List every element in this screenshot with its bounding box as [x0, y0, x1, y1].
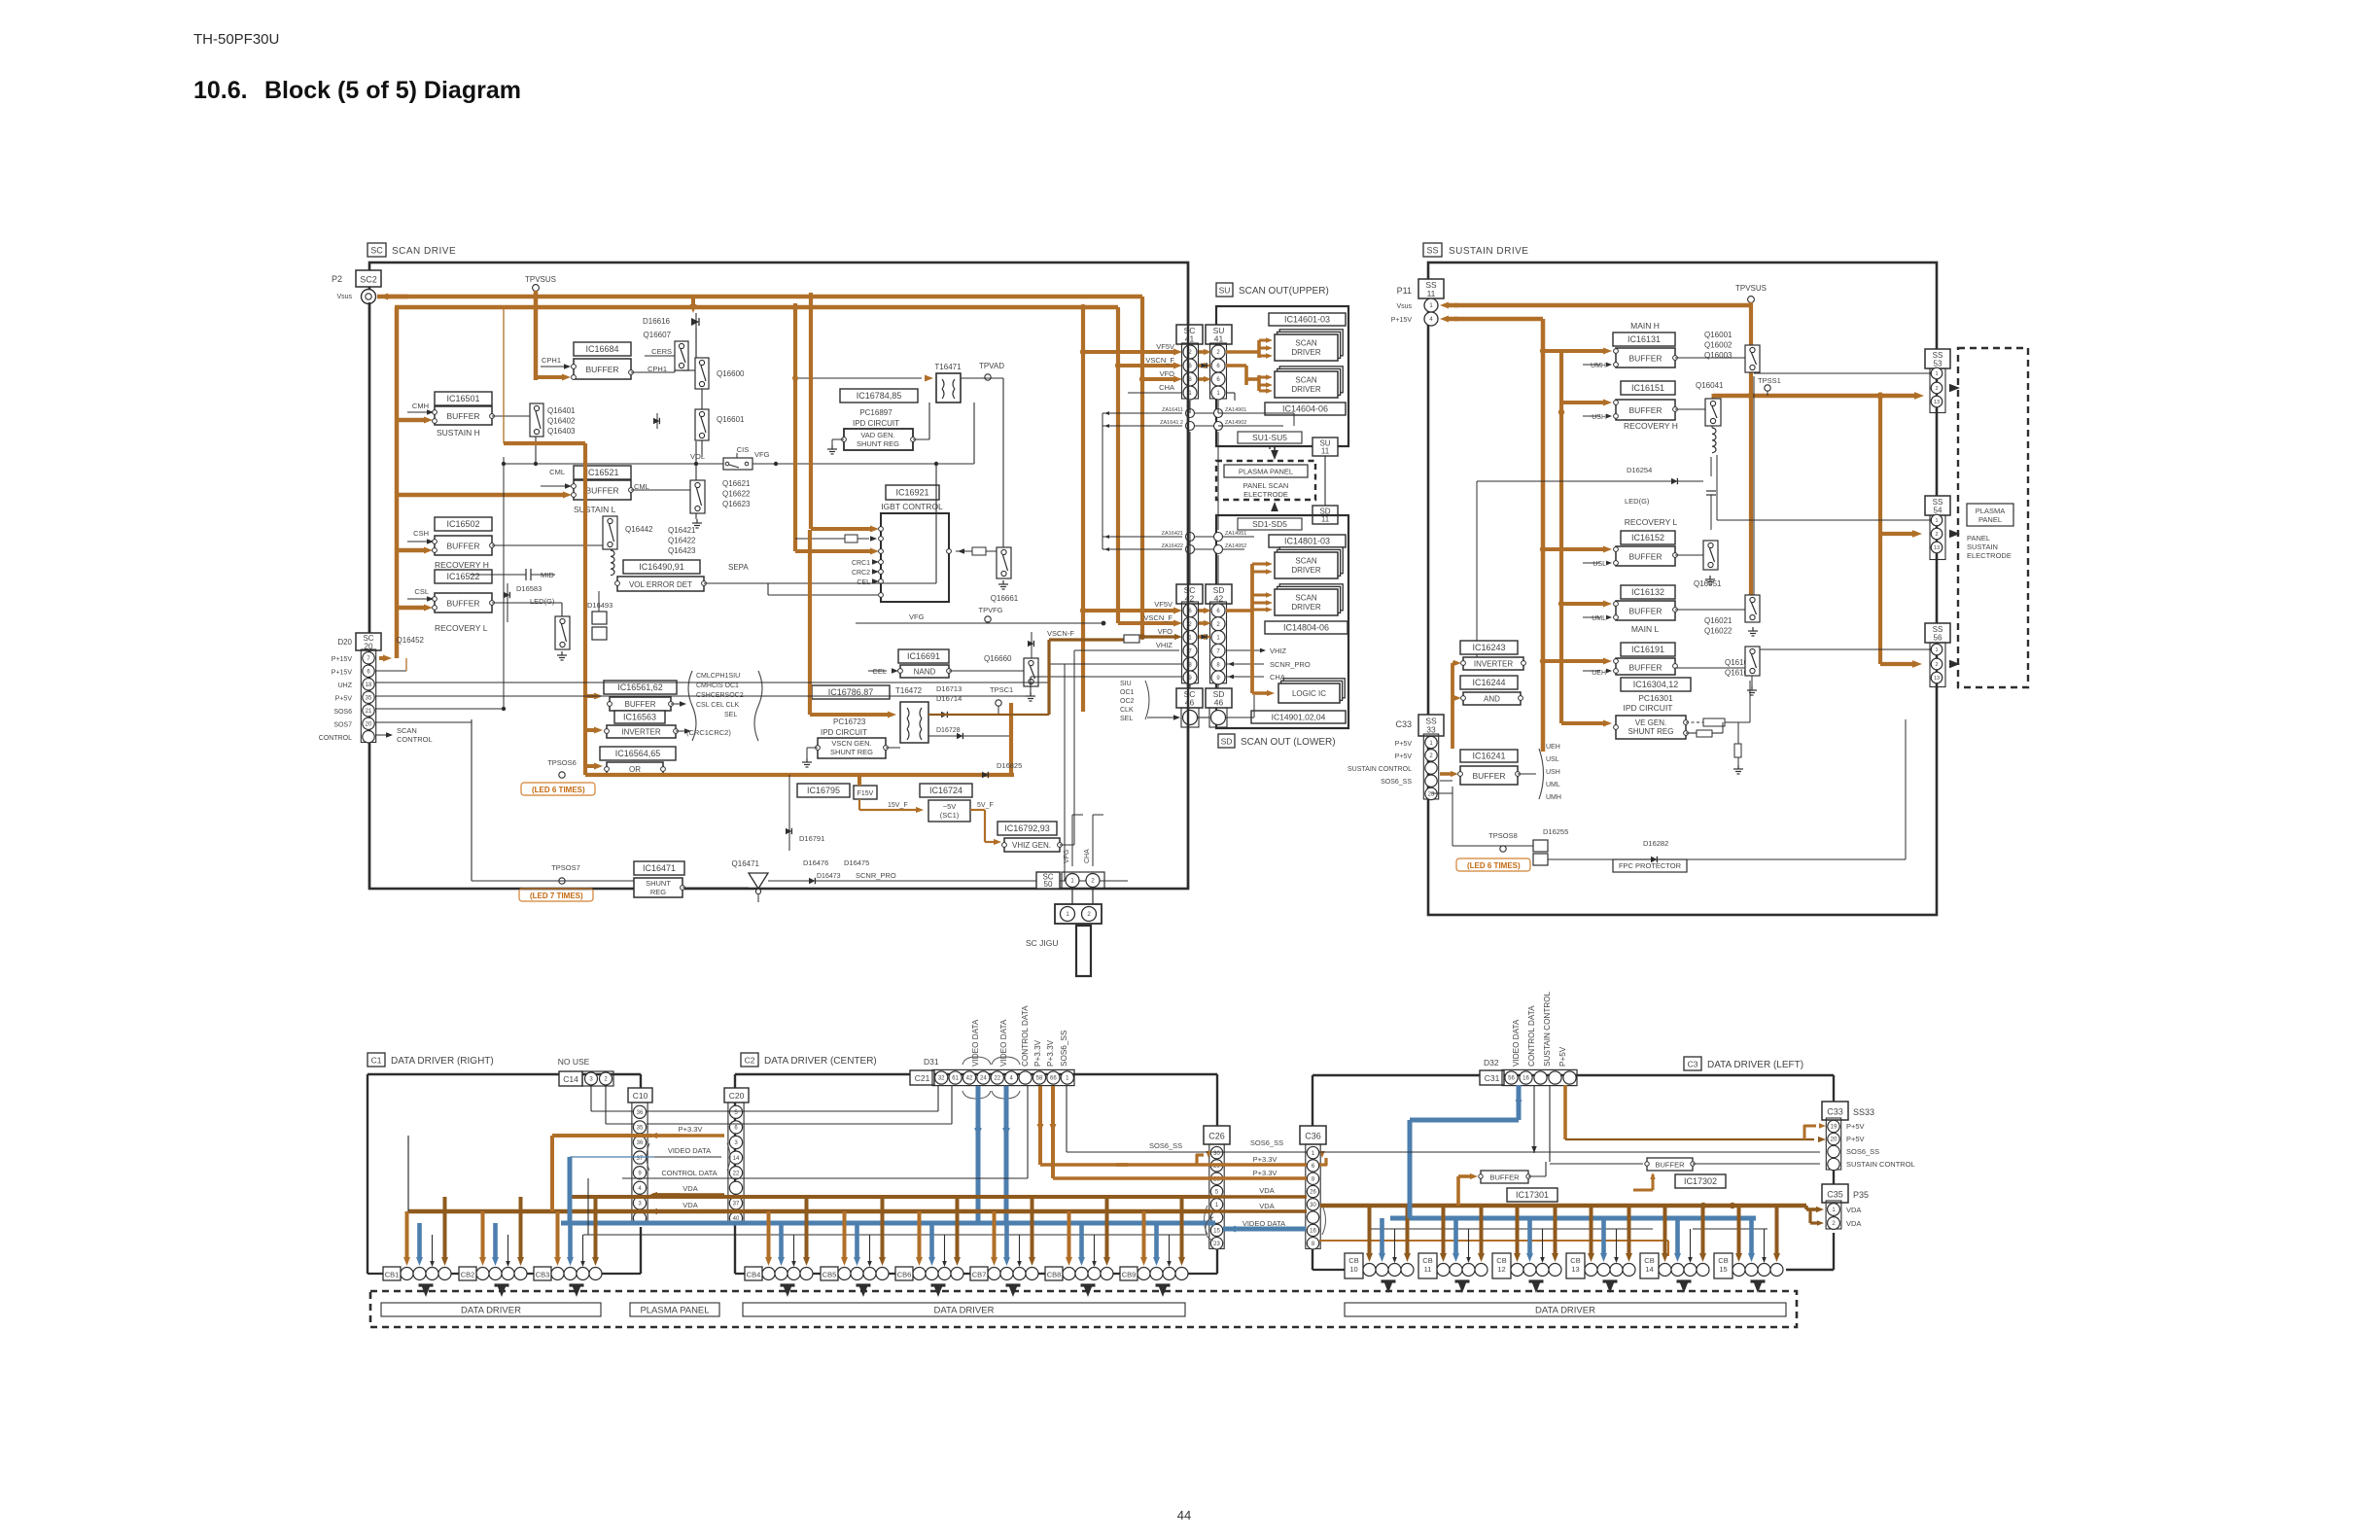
svg-text:C26: C26	[1208, 1132, 1225, 1141]
svg-text:1: 1	[1935, 647, 1938, 653]
svg-text:SHUNT: SHUNT	[646, 879, 671, 888]
svg-text:VFG: VFG	[909, 612, 925, 621]
svg-text:VAD GEN.: VAD GEN.	[860, 431, 894, 439]
svg-text:36: 36	[637, 1140, 644, 1146]
svg-text:BUFFER: BUFFER	[1629, 405, 1662, 415]
svg-text:SCNR_PRO: SCNR_PRO	[856, 871, 896, 880]
svg-text:23: 23	[1428, 792, 1435, 798]
svg-text:13: 13	[1934, 545, 1940, 551]
svg-text:IPD CIRCUIT: IPD CIRCUIT	[853, 419, 899, 428]
svg-text:USH: USH	[1592, 414, 1606, 421]
svg-text:SUSTAIN: SUSTAIN	[1967, 542, 1998, 551]
svg-text:2: 2	[1935, 662, 1938, 668]
svg-text:DRIVER: DRIVER	[1291, 603, 1320, 612]
svg-text:D16476: D16476	[803, 858, 828, 867]
svg-text:PC16723: PC16723	[833, 717, 866, 726]
svg-text:VDA: VDA	[1259, 1186, 1274, 1195]
svg-text:RECOVERY L: RECOVERY L	[435, 623, 488, 633]
svg-text:PANEL: PANEL	[1978, 515, 2002, 524]
svg-text:SCAN DRIVE: SCAN DRIVE	[392, 246, 456, 257]
svg-text:IC16691: IC16691	[907, 651, 940, 661]
svg-text:50: 50	[1044, 880, 1053, 889]
svg-text:CB1: CB1	[385, 1271, 400, 1279]
svg-text:CIS: CIS	[737, 445, 750, 454]
svg-text:SOS6_SS: SOS6_SS	[1846, 1147, 1879, 1156]
svg-text:CB2: CB2	[461, 1271, 475, 1279]
svg-text:LOGIC IC: LOGIC IC	[1292, 689, 1326, 698]
svg-text:1: 1	[1935, 371, 1938, 377]
svg-text:15: 15	[1213, 1229, 1220, 1235]
svg-text:Q16422: Q16422	[668, 537, 696, 545]
svg-text:IC16724: IC16724	[929, 786, 962, 795]
svg-text:T16472: T16472	[895, 686, 923, 695]
svg-text:SCAN OUT(UPPER): SCAN OUT(UPPER)	[1239, 286, 1329, 297]
svg-text:DATA DRIVER: DATA DRIVER	[934, 1305, 995, 1315]
svg-text:MAIN H: MAIN H	[1630, 321, 1660, 331]
svg-text:SHUNT REG: SHUNT REG	[830, 748, 873, 756]
svg-text:IC16304,12: IC16304,12	[1633, 680, 1679, 689]
svg-text:IC16241: IC16241	[1472, 752, 1505, 761]
svg-text:CHA: CHA	[1159, 383, 1174, 392]
svg-text:C21: C21	[915, 1073, 930, 1083]
svg-text:D16255: D16255	[1543, 827, 1568, 836]
svg-text:VIDEO DATA: VIDEO DATA	[1512, 1019, 1521, 1067]
svg-text:UML: UML	[1546, 782, 1560, 788]
svg-text:SCAN: SCAN	[1295, 376, 1316, 385]
svg-text:BUFFER: BUFFER	[447, 599, 480, 609]
svg-text:D16713: D16713	[936, 684, 962, 693]
svg-text:IGBT CONTROL: IGBT CONTROL	[881, 502, 943, 511]
svg-text:35: 35	[366, 695, 372, 701]
svg-text:LED(G): LED(G)	[530, 597, 555, 606]
svg-text:1: 1	[1935, 518, 1938, 524]
svg-text:SUSTAIN CONTROL: SUSTAIN CONTROL	[1347, 766, 1412, 773]
svg-text:Q16421: Q16421	[668, 526, 696, 535]
svg-text:CONTROL: CONTROL	[319, 735, 352, 742]
svg-text:ZA14902: ZA14902	[1225, 420, 1246, 426]
svg-text:ZA16411: ZA16411	[1162, 407, 1183, 413]
svg-text:VFG: VFG	[754, 450, 770, 459]
svg-text:10.6.: 10.6.	[193, 77, 248, 104]
svg-text:D16473: D16473	[817, 873, 841, 880]
svg-text:SOS6: SOS6	[333, 709, 352, 716]
svg-text:DATA DRIVER: DATA DRIVER	[461, 1305, 521, 1315]
svg-text:CERS: CERS	[651, 347, 672, 356]
svg-text:SD1-SD5: SD1-SD5	[1252, 519, 1287, 529]
svg-text:15V_F: 15V_F	[888, 802, 908, 809]
svg-text:VF5V: VF5V	[1156, 342, 1174, 351]
svg-text:VOL: VOL	[690, 452, 705, 461]
svg-text:5V_F: 5V_F	[977, 802, 994, 809]
svg-text:Q16452: Q16452	[397, 636, 425, 645]
svg-text:14: 14	[733, 1156, 740, 1162]
svg-text:TPVSUS: TPVSUS	[525, 275, 556, 284]
svg-text:ZA14952: ZA14952	[1225, 543, 1246, 549]
svg-text:P+5V: P+5V	[1846, 1122, 1865, 1131]
svg-text:C20: C20	[729, 1091, 745, 1101]
svg-text:IC17302: IC17302	[1684, 1176, 1717, 1186]
svg-text:Q16022: Q16022	[1704, 627, 1732, 636]
svg-text:SCAN: SCAN	[1295, 339, 1316, 348]
svg-text:BUFFER: BUFFER	[586, 365, 619, 374]
svg-text:CML: CML	[549, 468, 565, 476]
svg-text:P+5V: P+5V	[1846, 1135, 1865, 1143]
svg-text:Block (5 of 5) Diagram: Block (5 of 5) Diagram	[264, 77, 521, 104]
svg-text:P+5V: P+5V	[335, 696, 353, 703]
svg-text:D16475: D16475	[844, 858, 869, 867]
svg-text:SS: SS	[1426, 246, 1438, 256]
svg-text:VHIZ: VHIZ	[1270, 647, 1287, 655]
svg-text:ELECTRODE: ELECTRODE	[1243, 490, 1288, 499]
svg-text:UEH: UEH	[1546, 744, 1560, 751]
svg-text:Q16607: Q16607	[644, 331, 672, 339]
svg-text:TPVFG: TPVFG	[978, 606, 1002, 614]
svg-text:Q16660: Q16660	[984, 654, 1012, 663]
svg-text:TPVSUS: TPVSUS	[1735, 284, 1767, 293]
svg-text:VHIZ: VHIZ	[1156, 641, 1173, 649]
svg-text:P+3.3V: P+3.3V	[1253, 1155, 1277, 1164]
svg-text:(SC1): (SC1)	[940, 811, 960, 820]
svg-text:C31: C31	[1485, 1073, 1500, 1083]
svg-text:P+5V: P+5V	[1395, 753, 1413, 760]
svg-text:CMLCPH1SIU: CMLCPH1SIU	[696, 673, 740, 680]
svg-text:53: 53	[1934, 360, 1942, 368]
svg-text:D16583: D16583	[516, 584, 542, 593]
svg-text:DATA DRIVER: DATA DRIVER	[1535, 1305, 1595, 1315]
svg-text:SOS6_SS: SOS6_SS	[1060, 1030, 1068, 1067]
svg-text:CHA: CHA	[1270, 673, 1285, 682]
svg-text:VFO: VFO	[1158, 627, 1173, 636]
svg-text:IC16243: IC16243	[1472, 643, 1505, 652]
svg-text:ELECTRODE: ELECTRODE	[1967, 551, 2012, 560]
svg-text:CB: CB	[1496, 1256, 1506, 1265]
svg-text:PC16897: PC16897	[859, 408, 892, 417]
svg-text:12: 12	[1497, 1265, 1505, 1274]
svg-text:Q16051: Q16051	[1694, 579, 1722, 588]
svg-text:CB: CB	[1718, 1256, 1728, 1265]
svg-text:CB7: CB7	[972, 1271, 987, 1279]
svg-text:TPVAD: TPVAD	[979, 362, 1004, 370]
svg-text:IC14801-03: IC14801-03	[1284, 537, 1330, 546]
svg-text:IC16131: IC16131	[1627, 334, 1661, 344]
svg-text:UMH: UMH	[1591, 363, 1606, 369]
svg-text:C1: C1	[371, 1056, 382, 1066]
svg-text:Q16041: Q16041	[1696, 381, 1724, 390]
svg-text:11: 11	[1424, 1265, 1432, 1274]
svg-text:56: 56	[1934, 634, 1942, 643]
svg-text:P+3.3V: P+3.3V	[1033, 1039, 1042, 1067]
svg-text:SEPA: SEPA	[728, 563, 749, 572]
svg-text:NAND: NAND	[914, 668, 936, 677]
svg-text:BUFFER: BUFFER	[447, 542, 480, 551]
svg-text:P+5V: P+5V	[1395, 741, 1413, 748]
svg-text:D16616: D16616	[643, 317, 671, 326]
svg-text:P+15V: P+15V	[332, 670, 353, 677]
svg-text:33: 33	[1426, 725, 1436, 735]
svg-text:LED(G): LED(G)	[1625, 497, 1650, 506]
svg-text:(LED 6 TIMES): (LED 6 TIMES)	[532, 786, 585, 794]
svg-text:SIU: SIU	[1120, 681, 1132, 687]
svg-text:FPC PROTECTOR: FPC PROTECTOR	[1619, 861, 1682, 870]
svg-text:Q16621: Q16621	[722, 479, 751, 488]
svg-text:RECOVERY L: RECOVERY L	[1625, 517, 1678, 527]
svg-text:IC16490,91: IC16490,91	[639, 562, 684, 572]
svg-text:BUFFER: BUFFER	[1629, 552, 1662, 562]
svg-text:VDA: VDA	[1259, 1202, 1274, 1210]
svg-text:Q16600: Q16600	[717, 369, 745, 378]
svg-text:PC16301: PC16301	[1638, 693, 1673, 703]
svg-text:Q16623: Q16623	[722, 500, 751, 508]
svg-text:BUFFER: BUFFER	[1490, 1173, 1521, 1182]
svg-text:D31: D31	[924, 1057, 939, 1067]
svg-text:13: 13	[1934, 676, 1940, 682]
svg-text:SCAN OUT (LOWER): SCAN OUT (LOWER)	[1241, 737, 1336, 748]
svg-text:C10: C10	[633, 1091, 648, 1101]
svg-text:Q16601: Q16601	[717, 415, 745, 424]
svg-text:REG: REG	[650, 888, 666, 896]
svg-text:SHUNT REG: SHUNT REG	[1628, 727, 1674, 736]
svg-text:SUSTAIN L: SUSTAIN L	[574, 505, 616, 514]
svg-text:IC14901,02,04: IC14901,02,04	[1272, 713, 1326, 722]
svg-text:SC2: SC2	[360, 275, 377, 285]
svg-text:IC16502: IC16502	[446, 519, 479, 529]
svg-text:46: 46	[1214, 698, 1224, 708]
svg-text:PLASMA: PLASMA	[1976, 507, 2005, 515]
svg-text:PANEL SCAN: PANEL SCAN	[1243, 481, 1289, 490]
svg-text:24: 24	[980, 1076, 987, 1082]
svg-text:BUFFER: BUFFER	[625, 700, 656, 709]
svg-text:D16714: D16714	[936, 694, 962, 703]
svg-text:CB: CB	[1570, 1256, 1580, 1265]
svg-text:IC16795: IC16795	[807, 786, 840, 795]
svg-text:VF5V: VF5V	[1154, 600, 1172, 609]
svg-text:56: 56	[1508, 1076, 1515, 1082]
svg-text:VFO: VFO	[1160, 369, 1175, 378]
svg-text:D16493: D16493	[587, 601, 612, 610]
svg-text:13: 13	[1934, 400, 1940, 405]
svg-text:ZA1641 2: ZA1641 2	[1160, 420, 1183, 426]
svg-text:TH-50PF30U: TH-50PF30U	[193, 31, 279, 48]
svg-text:OC1: OC1	[1120, 689, 1135, 696]
svg-text:IPD CIRCUIT: IPD CIRCUIT	[1624, 703, 1673, 713]
svg-text:SC JIGU: SC JIGU	[1026, 938, 1059, 948]
svg-text:VOL ERROR DET: VOL ERROR DET	[629, 580, 692, 589]
svg-text:Q16442: Q16442	[625, 525, 653, 534]
svg-text:ZA14901: ZA14901	[1225, 407, 1246, 413]
svg-text:37: 37	[733, 1202, 740, 1207]
svg-text:RECOVERY H: RECOVERY H	[435, 560, 489, 570]
svg-text:DRIVER: DRIVER	[1291, 348, 1320, 357]
svg-text:C2: C2	[745, 1056, 755, 1066]
svg-text:(LED 6 TIMES): (LED 6 TIMES)	[1467, 861, 1521, 870]
svg-text:23: 23	[1213, 1242, 1220, 1247]
svg-text:BUFFER: BUFFER	[1629, 607, 1662, 616]
svg-text:OR: OR	[629, 765, 641, 774]
svg-text:P11: P11	[1397, 286, 1412, 296]
svg-text:(CRC1CRC2): (CRC1CRC2)	[686, 728, 731, 737]
svg-text:C33: C33	[1827, 1107, 1843, 1117]
svg-text:CRC1: CRC1	[852, 560, 870, 567]
svg-text:CB4: CB4	[747, 1271, 761, 1279]
svg-text:RECOVERY H: RECOVERY H	[1624, 421, 1678, 431]
svg-text:IC16522: IC16522	[446, 572, 479, 581]
svg-text:41: 41	[1185, 334, 1195, 344]
svg-text:Vsus: Vsus	[1396, 303, 1412, 310]
svg-text:VDA: VDA	[1846, 1219, 1861, 1228]
svg-text:16: 16	[1522, 1076, 1529, 1082]
svg-text:32: 32	[938, 1076, 945, 1082]
svg-text:SUSTAIN H: SUSTAIN H	[437, 428, 480, 437]
svg-text:VIDEO DATA: VIDEO DATA	[971, 1019, 980, 1067]
svg-text:SEL: SEL	[724, 712, 737, 718]
svg-text:CB: CB	[1348, 1256, 1358, 1265]
svg-text:IC16501: IC16501	[446, 394, 479, 403]
svg-text:ZA16422: ZA16422	[1162, 543, 1183, 549]
svg-text:BUFFER: BUFFER	[1473, 771, 1506, 781]
svg-text:20: 20	[1831, 1137, 1837, 1143]
svg-text:TPSOS6: TPSOS6	[547, 758, 577, 767]
svg-text:DRIVER: DRIVER	[1291, 566, 1320, 575]
svg-text:61: 61	[952, 1076, 959, 1082]
svg-text:BUFFER: BUFFER	[447, 411, 480, 421]
svg-text:11: 11	[1427, 289, 1436, 298]
svg-text:CB9: CB9	[1122, 1271, 1137, 1279]
svg-text:IC16684: IC16684	[585, 344, 618, 354]
svg-text:DATA DRIVER (RIGHT): DATA DRIVER (RIGHT)	[391, 1056, 494, 1067]
svg-text:CMHCIS OC1: CMHCIS OC1	[696, 682, 739, 689]
svg-text:UML: UML	[1592, 615, 1606, 622]
svg-text:IC16784,85: IC16784,85	[857, 391, 902, 401]
svg-text:CHA: CHA	[1084, 849, 1091, 863]
svg-text:Q16471: Q16471	[732, 859, 760, 868]
svg-text:IPD CIRCUIT: IPD CIRCUIT	[821, 728, 867, 737]
svg-text:C35: C35	[1827, 1190, 1843, 1200]
svg-text:2: 2	[1935, 532, 1938, 538]
svg-text:IC16561,62: IC16561,62	[617, 682, 663, 692]
svg-text:SCAN: SCAN	[1295, 594, 1316, 603]
svg-text:VSCN-F: VSCN-F	[1047, 629, 1074, 638]
svg-text:54: 54	[1934, 507, 1942, 515]
svg-text:VFG: VFG	[1064, 850, 1070, 863]
svg-text:SUSTAIN CONTROL: SUSTAIN CONTROL	[1543, 991, 1552, 1067]
svg-text:SOS6_SS: SOS6_SS	[1250, 1138, 1283, 1147]
svg-text:CB5: CB5	[822, 1271, 837, 1279]
svg-text:CRC2: CRC2	[852, 570, 870, 577]
svg-text:46: 46	[1185, 698, 1195, 708]
svg-text:CLK: CLK	[1120, 707, 1134, 714]
svg-text:C33: C33	[1395, 719, 1412, 729]
svg-text:26: 26	[1310, 1190, 1316, 1196]
svg-text:BUFFER: BUFFER	[1629, 663, 1662, 673]
svg-text:D32: D32	[1484, 1058, 1499, 1067]
svg-text:SCNR_PRO: SCNR_PRO	[1270, 660, 1311, 669]
svg-text:CONTROL DATA: CONTROL DATA	[1021, 1005, 1030, 1067]
svg-text:INVERTER: INVERTER	[621, 728, 661, 737]
svg-text:CMH: CMH	[412, 402, 429, 410]
svg-text:TPSS1: TPSS1	[1758, 376, 1781, 385]
svg-text:D16825: D16825	[997, 761, 1022, 770]
svg-text:SS33: SS33	[1853, 1107, 1874, 1117]
svg-text:36: 36	[637, 1110, 644, 1116]
svg-text:11: 11	[1321, 447, 1330, 456]
svg-text:19: 19	[1831, 1125, 1837, 1131]
svg-text:CONTROL DATA: CONTROL DATA	[661, 1169, 717, 1177]
svg-text:TPSOS8: TPSOS8	[1488, 831, 1518, 840]
svg-text:Vsus: Vsus	[336, 294, 352, 300]
svg-text:IC14604-06: IC14604-06	[1282, 404, 1328, 414]
svg-text:CB8: CB8	[1047, 1271, 1062, 1279]
svg-text:58: 58	[1036, 1076, 1043, 1082]
svg-text:AND: AND	[1484, 695, 1500, 704]
svg-text:P+3.3V: P+3.3V	[1046, 1039, 1055, 1067]
svg-text:14: 14	[1645, 1265, 1653, 1274]
svg-text:66: 66	[1050, 1076, 1057, 1082]
svg-text:IC16921: IC16921	[895, 488, 928, 498]
svg-text:CPH1: CPH1	[542, 356, 561, 365]
svg-text:USL: USL	[1592, 561, 1606, 568]
svg-text:CB6: CB6	[897, 1271, 912, 1279]
svg-text:BUFFER: BUFFER	[1656, 1161, 1686, 1170]
svg-text:VSCN GEN.: VSCN GEN.	[831, 739, 871, 748]
svg-text:IC16471: IC16471	[643, 863, 676, 873]
svg-text:P+15V: P+15V	[1391, 317, 1413, 324]
svg-text:P+3.3V: P+3.3V	[679, 1125, 703, 1134]
svg-text:NO USE: NO USE	[558, 1057, 590, 1067]
svg-text:SCAN: SCAN	[1295, 557, 1316, 566]
svg-text:VSCN_F: VSCN_F	[1143, 613, 1172, 622]
svg-text:IC16244: IC16244	[1472, 678, 1505, 687]
svg-text:20: 20	[366, 721, 372, 727]
svg-text:21: 21	[366, 709, 372, 715]
svg-text:D16791: D16791	[799, 834, 824, 843]
svg-text:C14: C14	[563, 1074, 578, 1084]
svg-text:D16282: D16282	[1643, 839, 1668, 848]
svg-text:CONTROL: CONTROL	[397, 735, 433, 744]
svg-text:TPSC1: TPSC1	[990, 685, 1013, 694]
svg-text:D20: D20	[337, 638, 352, 647]
svg-text:P2: P2	[332, 274, 342, 284]
svg-text:SOS6_SS: SOS6_SS	[1381, 779, 1412, 786]
svg-text:ZA16421: ZA16421	[1162, 531, 1183, 537]
svg-text:VSCN_F: VSCN_F	[1145, 356, 1174, 365]
svg-text:DATA DRIVER (LEFT): DATA DRIVER (LEFT)	[1707, 1060, 1803, 1070]
svg-text:CSL CEL CLK: CSL CEL CLK	[696, 702, 740, 709]
svg-text:CSH: CSH	[413, 529, 429, 538]
svg-text:D16254: D16254	[1627, 466, 1652, 474]
svg-text:P+3.3V: P+3.3V	[1253, 1169, 1277, 1177]
svg-text:IC16564,65: IC16564,65	[615, 749, 661, 758]
svg-text:C3: C3	[1688, 1060, 1698, 1069]
svg-text:PLASMA PANEL: PLASMA PANEL	[640, 1305, 709, 1315]
svg-text:IC16191: IC16191	[1631, 645, 1664, 654]
svg-text:DATA DRIVER (CENTER): DATA DRIVER (CENTER)	[764, 1056, 877, 1067]
svg-text:VDA: VDA	[682, 1184, 697, 1193]
svg-text:Q16423: Q16423	[668, 546, 696, 555]
svg-text:35: 35	[637, 1126, 644, 1132]
svg-text:SOS7: SOS7	[333, 722, 352, 729]
svg-text:22: 22	[733, 1171, 740, 1176]
svg-text:CONTROL DATA: CONTROL DATA	[1527, 1005, 1536, 1067]
svg-text:Q16002: Q16002	[1704, 341, 1732, 350]
svg-text:UHZ: UHZ	[338, 682, 353, 689]
svg-text:Q16661: Q16661	[991, 594, 1019, 603]
svg-text:SD: SD	[1221, 737, 1233, 747]
svg-text:UMH: UMH	[1546, 794, 1561, 801]
svg-text:P35: P35	[1853, 1190, 1869, 1200]
svg-text:2: 2	[1935, 386, 1938, 392]
svg-text:IC16792,93: IC16792,93	[1004, 823, 1050, 833]
svg-text:44: 44	[1177, 1508, 1191, 1522]
